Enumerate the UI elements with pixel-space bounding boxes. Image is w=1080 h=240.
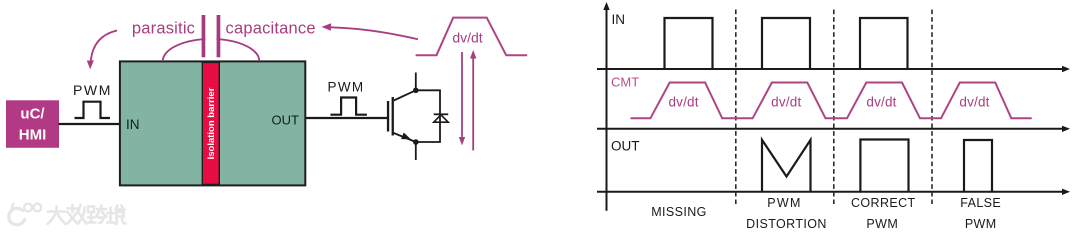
dv/dt arrow down xyxy=(461,52,463,139)
svg-text:OUT: OUT xyxy=(611,138,640,153)
OUT distorted M pulse xyxy=(762,140,811,192)
wire OUT to gate xyxy=(306,117,388,119)
arrow dvdt to capacitance xyxy=(331,27,418,39)
OUT false pulse xyxy=(964,140,992,192)
svg-text:HMI: HMI xyxy=(19,127,47,144)
svg-text:MISSING: MISSING xyxy=(651,205,707,219)
diode branch wire xyxy=(416,90,440,142)
svg-text:dv/dt: dv/dt xyxy=(959,94,989,109)
IGBT Q1 body bar xyxy=(392,97,394,136)
svg-text:PWM: PWM xyxy=(328,80,365,95)
IGBT Q1 collector diagonal xyxy=(394,90,416,100)
parasitic capacitance field arc xyxy=(163,39,259,61)
svg-text:dv/dt: dv/dt xyxy=(452,29,482,45)
node collector xyxy=(413,88,419,94)
isolation barrier strip xyxy=(202,62,219,184)
svg-text:DISTORTION: DISTORTION xyxy=(746,217,827,231)
svg-text:PWM: PWM xyxy=(866,217,898,231)
svg-text:IN: IN xyxy=(126,117,140,132)
svg-text:OUT: OUT xyxy=(272,113,300,128)
watermark text xyxy=(48,205,126,224)
IN pulse 3 xyxy=(860,18,908,69)
IN pulse 1 xyxy=(665,18,713,69)
dashed separator 3 xyxy=(931,10,933,205)
PWM pulse symbol input xyxy=(75,102,111,118)
svg-text:dv/dt: dv/dt xyxy=(866,94,896,109)
IGBT Q1 emitter diagonal xyxy=(394,133,416,142)
svg-text:IN: IN xyxy=(612,12,626,27)
svg-text:Isolation barrier: Isolation barrier xyxy=(206,87,217,159)
CMT axis xyxy=(597,128,1063,130)
svg-text:PWM: PWM xyxy=(767,196,801,210)
uC/HMI block U1 xyxy=(6,100,59,148)
capacitor plate right xyxy=(217,15,221,57)
dv/dt waveform left xyxy=(416,18,528,56)
watermark logo xyxy=(9,204,41,225)
dashed separator 1 xyxy=(735,10,737,205)
svg-text:PWM: PWM xyxy=(965,217,997,231)
timing vertical axis xyxy=(606,9,608,211)
svg-text:CMT: CMT xyxy=(611,75,639,90)
emitter wire xyxy=(415,142,417,160)
dv/dt arrow up xyxy=(472,57,474,151)
svg-text:FALSE: FALSE xyxy=(960,196,1001,210)
svg-text:dv/dt: dv/dt xyxy=(771,94,801,109)
CMT trapezoid waveform xyxy=(631,83,1032,119)
svg-text:uC/: uC/ xyxy=(20,106,45,123)
svg-text:dv/dt: dv/dt xyxy=(668,94,698,109)
svg-text:CORRECT: CORRECT xyxy=(851,196,916,210)
IGBT Q1 emitter arrow xyxy=(401,133,411,140)
svg-text:parasitic: parasitic xyxy=(132,20,195,38)
svg-text:capacitance: capacitance xyxy=(226,20,316,38)
collector wire xyxy=(415,73,417,91)
PWM pulse symbol output xyxy=(330,98,367,115)
node emitter xyxy=(413,139,419,145)
wire uC to isolator IN xyxy=(59,123,121,125)
OUT axis xyxy=(597,191,1063,193)
IGBT Q1 gate bar xyxy=(387,101,389,132)
diode D1 xyxy=(434,113,449,115)
OUT correct pulse xyxy=(860,140,908,192)
isolator block (digital isolator) xyxy=(120,61,305,185)
IN pulse 2 xyxy=(762,18,810,69)
capacitor plate left xyxy=(202,15,206,57)
arrow parasitic to isolator xyxy=(91,31,117,62)
svg-text:PWM: PWM xyxy=(73,82,112,98)
IN axis xyxy=(597,68,1063,70)
dashed separator 2 xyxy=(833,10,835,205)
